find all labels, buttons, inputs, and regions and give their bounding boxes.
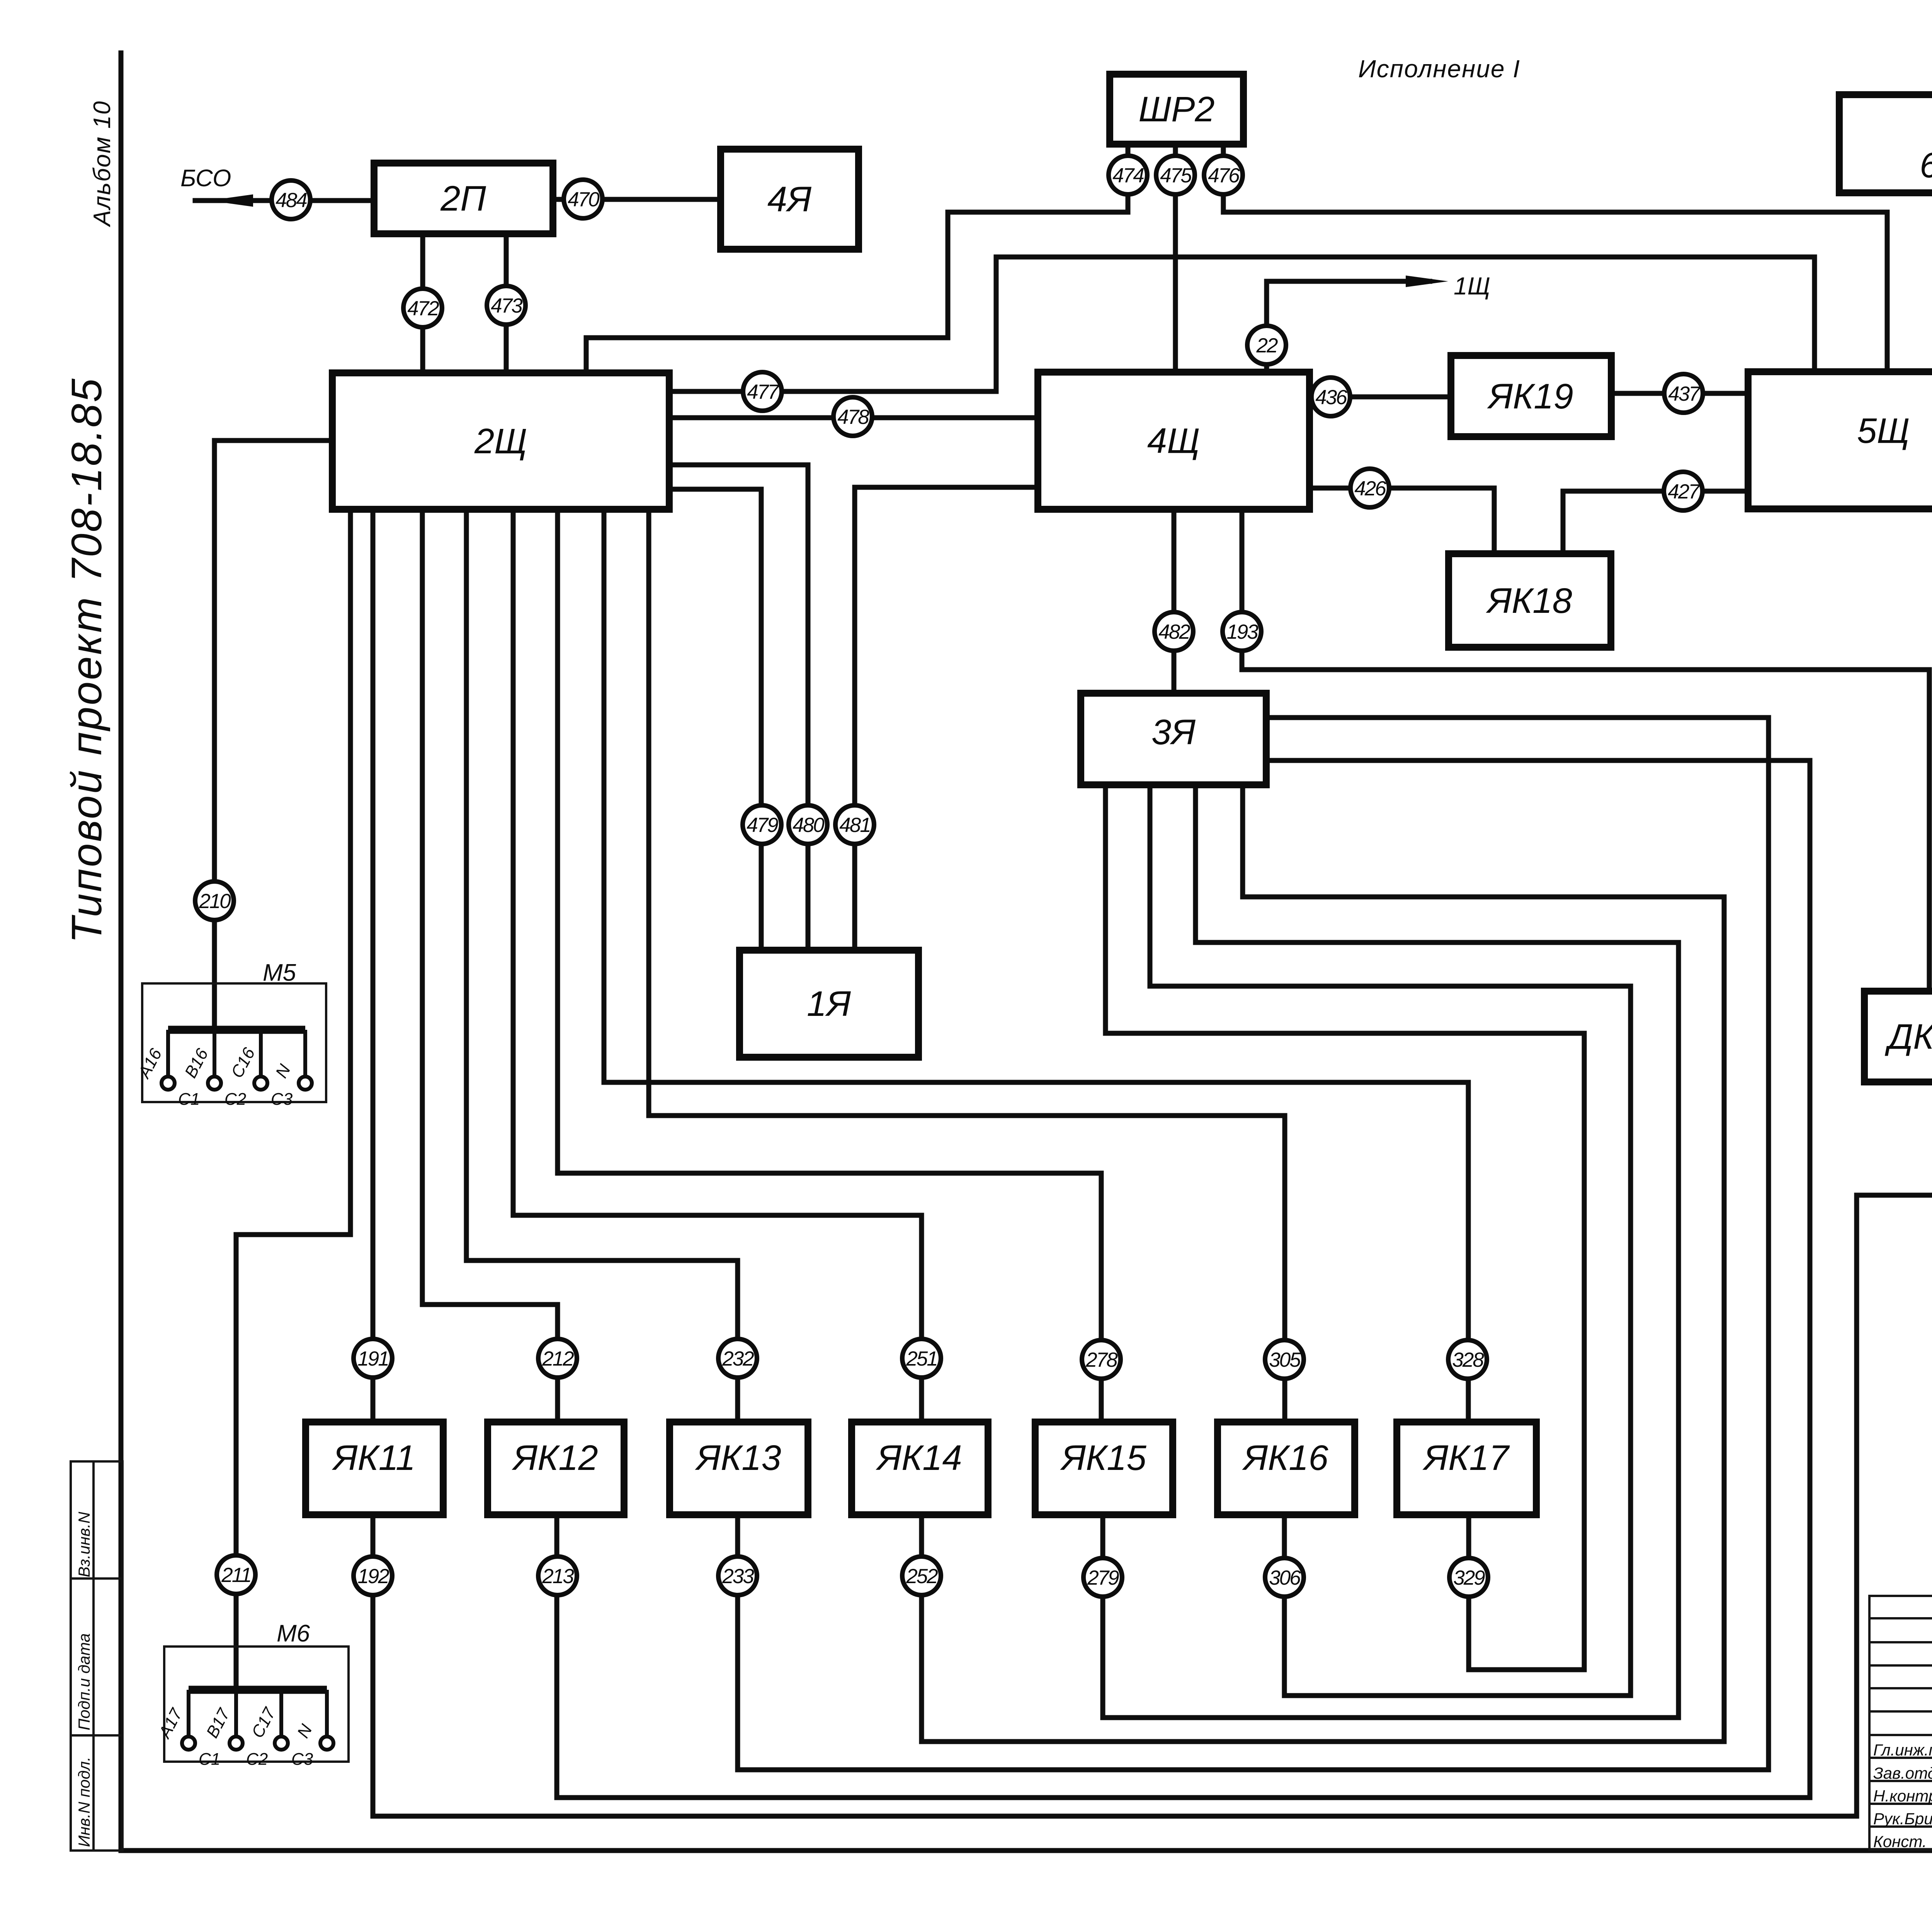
wire ШР2-474-2Щ: [586, 144, 1128, 373]
node circle 481: [835, 805, 874, 844]
svg-text:ЯК13: ЯК13: [694, 1438, 781, 1478]
svg-text:2П: 2П: [440, 179, 486, 218]
node circle 233: [718, 1556, 757, 1595]
svg-text:ЯК19: ЯК19: [1486, 377, 1573, 416]
block 6Я: [1839, 95, 1932, 193]
svg-text:ШР2: ШР2: [1138, 90, 1214, 129]
svg-text:212: 212: [542, 1347, 574, 1370]
wire 2Щ-191-ЯК11: [371, 509, 376, 1422]
wire 2Щ-211-М6: [236, 509, 350, 1690]
node circle 470: [564, 180, 602, 218]
wire 2Щ-212-ЯК12: [422, 509, 558, 1422]
node circle 251: [902, 1339, 941, 1378]
node circle 252: [902, 1556, 941, 1595]
svg-text:ДК20: ДК20: [1884, 1017, 1932, 1056]
svg-text:М6: М6: [277, 1620, 310, 1647]
node circle 476: [1204, 156, 1243, 194]
svg-text:473: 473: [491, 294, 523, 317]
block ДК20: [1864, 991, 1932, 1082]
wire 2Щ-305-ЯК16: [649, 509, 1285, 1422]
wire 5Щ-192-ЯК11 long loop: [373, 486, 1932, 1816]
wire 5Щ-427-ЯК18: [1563, 491, 1748, 554]
svg-text:БСО: БСО: [180, 165, 231, 192]
wire 2П-472-2Щ: [420, 234, 425, 373]
block ЯК19: [1451, 356, 1611, 437]
svg-text:Типовой проект 708-18.85: Типовой проект 708-18.85: [63, 377, 111, 943]
svg-text:474: 474: [1112, 164, 1144, 187]
wire 3Я-213-ЯК12 loop: [557, 760, 1810, 1798]
node circle 22: [1247, 326, 1286, 364]
wire 2Щ-278-ЯК15: [558, 509, 1101, 1422]
svg-text:Альбом 10: Альбом 10: [89, 100, 116, 228]
svg-text:Вз.инв.N: Вз.инв.N: [75, 1512, 93, 1577]
svg-text:ЯК17: ЯК17: [1422, 1438, 1510, 1478]
svg-text:С3: С3: [271, 1090, 293, 1109]
sheet frame bottom border: [121, 1848, 1932, 1853]
svg-text:481: 481: [839, 814, 870, 837]
svg-text:С3: С3: [291, 1750, 313, 1769]
svg-text:4Я: 4Я: [767, 180, 811, 219]
svg-text:Исполнение I: Исполнение I: [1358, 55, 1520, 83]
node circle 478: [833, 397, 872, 436]
wire 3Я-252-ЯК14 loop: [922, 785, 1724, 1742]
svg-text:482: 482: [1158, 621, 1190, 643]
svg-text:306: 306: [1269, 1567, 1301, 1589]
node circle 306: [1265, 1558, 1304, 1597]
block 4Щ: [1038, 372, 1310, 509]
block ЯК15: [1035, 1422, 1173, 1515]
block 2Щ: [332, 373, 669, 509]
sheet frame left border: [119, 53, 124, 1851]
svg-text:С1: С1: [178, 1090, 200, 1109]
svg-text:Гл.инж.пр: Гл.инж.пр: [1873, 1741, 1932, 1759]
svg-text:484: 484: [276, 189, 307, 212]
svg-text:328: 328: [1452, 1349, 1484, 1371]
terminal box М5: [134, 959, 326, 1109]
block ЯК12: [488, 1422, 624, 1515]
node circle 475: [1156, 156, 1195, 194]
wire 4Щ-193-ДК20: [1242, 509, 1929, 991]
svg-text:232: 232: [722, 1347, 754, 1370]
node circle 193: [1223, 612, 1261, 651]
svg-text:279: 279: [1087, 1567, 1119, 1589]
svg-text:233: 233: [722, 1565, 754, 1588]
block 1Я: [740, 950, 918, 1057]
svg-text:477: 477: [747, 381, 780, 403]
svg-text:5Щ: 5Щ: [1857, 411, 1910, 451]
stamp column boxes (Вз.инв.N / Подп.и дата / Инв.N подл.): [71, 1461, 122, 1851]
wire 2Щ-478-4Щ: [669, 415, 1038, 420]
wire 2Щ-232-ЯК13: [466, 509, 738, 1422]
svg-text:251: 251: [906, 1347, 937, 1370]
svg-text:С2: С2: [224, 1090, 246, 1109]
svg-text:472: 472: [407, 297, 439, 320]
svg-text:1Щ: 1Щ: [1454, 272, 1490, 300]
svg-text:Конст.: Конст.: [1873, 1832, 1927, 1851]
wire 2Щ-210-М5: [214, 441, 332, 1030]
svg-text:Зав.отд.: Зав.отд.: [1873, 1764, 1932, 1782]
svg-text:470: 470: [568, 188, 600, 211]
block ЯК11: [306, 1422, 443, 1515]
node circle 480: [789, 805, 827, 844]
svg-text:ЯК14: ЯК14: [875, 1438, 962, 1478]
block 3Я: [1081, 693, 1266, 785]
node circle 479: [743, 805, 781, 844]
node circle 192: [354, 1556, 392, 1595]
wire 4Щ-481-1Я: [855, 487, 1038, 950]
svg-text:ЯК15: ЯК15: [1060, 1438, 1146, 1478]
wire ЯК19-437-5Щ: [1611, 391, 1748, 396]
svg-text:436: 436: [1315, 386, 1347, 409]
svg-text:480: 480: [793, 814, 825, 837]
node circle 191: [354, 1339, 392, 1378]
svg-text:Рук.Бриг.: Рук.Бриг.: [1873, 1810, 1932, 1828]
node circle 329: [1449, 1558, 1488, 1597]
wire 4Щ-426-ЯК18: [1310, 488, 1494, 554]
svg-text:4Щ: 4Щ: [1147, 421, 1200, 461]
block ЯК18: [1449, 554, 1611, 647]
wire 2Щ-479-1Я: [669, 489, 761, 950]
svg-text:427: 427: [1668, 480, 1701, 503]
node circle 232: [718, 1339, 757, 1378]
node circle 482: [1155, 612, 1193, 651]
svg-text:192: 192: [357, 1565, 389, 1588]
svg-text:426: 426: [1354, 477, 1386, 500]
svg-text:437: 437: [1668, 383, 1701, 405]
node circle 210: [195, 881, 234, 920]
svg-text:329: 329: [1453, 1567, 1485, 1589]
node circle 437: [1664, 374, 1703, 413]
wire 2Щ-251-ЯК14: [513, 509, 922, 1422]
svg-text:Н.контр.: Н.контр.: [1873, 1787, 1932, 1805]
block ЯК13: [670, 1422, 808, 1515]
block ЯК16: [1218, 1422, 1355, 1515]
wire БСО-484-2П: [195, 198, 374, 203]
wire 2Щ-477-5Щ: [669, 257, 1815, 391]
block 5Щ: [1748, 372, 1932, 509]
svg-text:252: 252: [906, 1565, 938, 1588]
svg-text:191: 191: [357, 1347, 388, 1370]
svg-text:193: 193: [1226, 621, 1259, 643]
node circle 211: [217, 1555, 255, 1594]
svg-text:278: 278: [1085, 1349, 1118, 1371]
node circle 279: [1083, 1558, 1122, 1597]
node circle 278: [1082, 1340, 1121, 1379]
svg-text:3Я: 3Я: [1151, 713, 1196, 752]
svg-text:М5: М5: [263, 959, 296, 986]
node circle 212: [538, 1339, 577, 1378]
svg-text:213: 213: [542, 1565, 574, 1588]
node circle 484: [272, 180, 310, 219]
node circle 436: [1311, 378, 1350, 416]
svg-text:22: 22: [1256, 334, 1278, 357]
block ШР2: [1110, 74, 1243, 144]
node circle 472: [403, 289, 442, 327]
svg-text:Инв.N подл.: Инв.N подл.: [75, 1757, 93, 1847]
node circle 473: [487, 286, 526, 325]
terminal box М6: [155, 1620, 349, 1769]
wire 4Щ-482-3Я: [1172, 509, 1177, 693]
node circle 477: [743, 372, 782, 411]
block 2П: [374, 163, 553, 234]
node circle 474: [1109, 156, 1147, 194]
wire 3Я-329-ЯК17 loop: [1105, 785, 1584, 1670]
node circle 305: [1265, 1340, 1304, 1379]
node circle 427: [1664, 472, 1702, 510]
svg-text:479: 479: [747, 814, 778, 837]
svg-text:478: 478: [837, 406, 869, 429]
wire 3Я-306-ЯК16 loop: [1150, 785, 1631, 1696]
wire 2П-470-4Я: [553, 197, 721, 202]
svg-text:6Я: 6Я: [1920, 146, 1932, 185]
wire 2Щ-328-ЯК17: [604, 509, 1468, 1422]
block ЯК17: [1397, 1422, 1536, 1515]
wire 3Я-233-ЯК13 loop: [738, 718, 1769, 1770]
svg-text:1Я: 1Я: [807, 984, 851, 1024]
wire ШР2-475-4Щ: [1173, 144, 1178, 372]
node circle 213: [538, 1556, 577, 1595]
block ЯК14: [852, 1422, 988, 1515]
title block: [1869, 1596, 1932, 1850]
wire ШР2-476-5Щ: [1223, 144, 1887, 372]
svg-text:210: 210: [199, 890, 231, 913]
svg-text:211: 211: [221, 1564, 251, 1587]
svg-text:2Щ: 2Щ: [474, 422, 527, 461]
wire 4Щ-22-1Щ with arrow: [1267, 281, 1430, 372]
wire 4Щ-436-ЯК19: [1310, 395, 1451, 400]
node circle 426: [1350, 469, 1389, 507]
svg-text:ЯК18: ЯК18: [1485, 581, 1572, 621]
svg-text:476: 476: [1208, 164, 1240, 187]
node circle 328: [1448, 1340, 1487, 1379]
svg-text:475: 475: [1160, 164, 1192, 187]
svg-text:С2: С2: [246, 1750, 268, 1769]
block 4Я: [721, 149, 859, 249]
svg-text:Подп.и дата: Подп.и дата: [75, 1633, 93, 1730]
svg-text:ЯК12: ЯК12: [511, 1438, 598, 1478]
svg-text:ЯК11: ЯК11: [332, 1438, 415, 1478]
wire 2П-473-2Щ: [504, 234, 509, 373]
svg-text:305: 305: [1269, 1349, 1301, 1371]
svg-text:С1: С1: [199, 1750, 220, 1769]
wire 2Щ-480-1Я: [669, 465, 808, 950]
svg-text:ЯК16: ЯК16: [1242, 1438, 1328, 1478]
arrowhead БСО: [209, 194, 253, 207]
wire 3Я-279-ЯК15 loop: [1103, 785, 1679, 1718]
